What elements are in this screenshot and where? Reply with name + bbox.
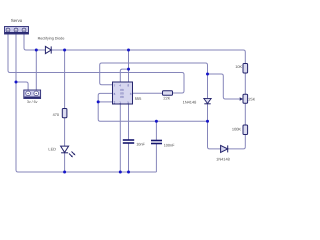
svg-text:Servo: Servo	[11, 18, 23, 23]
wire 555 pin7 arch to pot node	[100, 63, 208, 85]
wire battery minus to ground	[16, 82, 28, 90]
svg-text:10nF: 10nF	[136, 142, 145, 146]
junction node LED ground	[63, 171, 66, 174]
svg-text:100nF: 100nF	[164, 144, 175, 148]
wire 555 pin2 to node	[98, 101, 112, 103]
junction node cap C1 ground	[127, 171, 130, 174]
junction node 555 top pins	[127, 68, 130, 71]
wire pot wiper path	[208, 74, 240, 99]
svg-text:1N4148: 1N4148	[183, 99, 197, 104]
wire LED chain vertical	[64, 50, 66, 109]
junction node ground left	[15, 81, 18, 84]
svg-text:25K: 25K	[248, 97, 255, 101]
capacitor C1 10nF	[123, 140, 146, 146]
junction node LED chain top	[63, 49, 66, 52]
wire battery plus vertical	[35, 50, 37, 90]
wire right chain segments	[244, 73, 246, 94]
wire 555 pin3 output to 22K	[133, 92, 163, 94]
capacitor C2 100nF	[151, 141, 175, 148]
IC U1 555	[113, 82, 143, 105]
svg-text:88: 88	[120, 95, 124, 99]
svg-text:Rectifying Diode: Rectifying Diode	[38, 37, 65, 41]
wire +V rail after diode	[51, 50, 245, 64]
resistor R4 100K	[232, 125, 248, 135]
junction node cap C2 top	[155, 120, 158, 123]
junction node diode D2 bottom	[206, 120, 209, 123]
wire 555 top pin 4 L	[120, 69, 128, 82]
wire cap C2 branch	[155, 121, 157, 140]
diode D2 1N4148 vertical	[183, 98, 212, 104]
wire servo pin3 to battery plus	[24, 34, 36, 50]
wire 555 pin5 to cap C1	[128, 104, 130, 140]
junction node battery plus	[35, 49, 38, 52]
battery connector 3v/6v	[24, 90, 41, 104]
svg-text:3v / 6v: 3v / 6v	[27, 100, 38, 104]
LED D4	[48, 146, 75, 157]
connector J1 Servo	[5, 18, 29, 34]
diode D3 1N4148 horizontal	[216, 145, 230, 161]
wire servo pin2 ground run	[15, 34, 17, 170]
wire diode D2 leads	[207, 74, 209, 99]
junction node 555 vcc rail	[127, 49, 130, 52]
potentiometer VR1 25K	[240, 94, 256, 103]
junction node pins 2-6 tie	[97, 100, 100, 103]
resistor R2 22K	[163, 91, 173, 101]
svg-text:10K: 10K	[235, 65, 242, 69]
resistor R3 10K	[235, 64, 247, 74]
wire node down to timing line	[98, 102, 207, 121]
svg-text:555: 555	[135, 96, 142, 101]
rectifying diode D1	[38, 37, 65, 54]
wire 555 pin6 tie	[98, 93, 112, 102]
svg-text:100K: 100K	[232, 127, 241, 132]
wire servo pin1 signal run	[7, 34, 9, 71]
wire 555 pin1 to ground	[119, 104, 121, 172]
wire 555 top pin 8 to rail	[128, 50, 130, 82]
svg-text:LED: LED	[48, 147, 56, 152]
resistor R1 470	[53, 109, 67, 118]
svg-text:1N4148: 1N4148	[216, 156, 230, 161]
svg-text:22K: 22K	[163, 97, 170, 101]
wire diode anode segment	[36, 49, 45, 51]
svg-text:470: 470	[53, 113, 59, 117]
wire bottom diode D3 run	[208, 121, 221, 149]
junction node 555 pin1 ground	[119, 171, 122, 174]
junction node diode D2 top	[206, 73, 209, 76]
